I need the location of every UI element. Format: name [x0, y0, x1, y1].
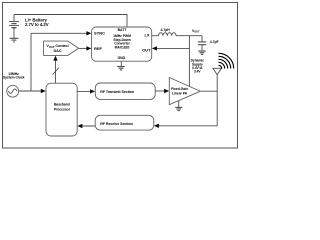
svg-text:System Clock: System Clock — [3, 76, 25, 80]
svg-text:DAC: DAC — [53, 49, 61, 53]
svg-text:4.7µF: 4.7µF — [210, 40, 220, 44]
svg-text:4.7µH: 4.7µH — [161, 28, 171, 32]
svg-text:SYNC: SYNC — [94, 31, 105, 36]
svg-text:REF: REF — [94, 46, 102, 51]
svg-text:Processor: Processor — [54, 107, 71, 111]
svg-text:3.4V: 3.4V — [194, 70, 201, 74]
svg-text:MAX1820: MAX1820 — [115, 45, 130, 49]
svg-text:2.7V to 4.2V: 2.7V to 4.2V — [25, 22, 49, 27]
svg-text:RF Receive Section: RF Receive Section — [100, 122, 132, 126]
svg-text:Fixed-Gain: Fixed-Gain — [171, 87, 188, 91]
svg-text:RF Transmit Section: RF Transmit Section — [100, 90, 134, 94]
svg-text:Baseband: Baseband — [54, 103, 70, 107]
svg-text:LX: LX — [144, 32, 149, 37]
svg-text:Linear PA: Linear PA — [172, 92, 188, 96]
svg-text:OUT: OUT — [142, 48, 151, 53]
svg-text:BATT: BATT — [118, 28, 128, 32]
svg-text:VOUT: VOUT — [192, 29, 200, 34]
svg-text:GND: GND — [117, 56, 125, 60]
